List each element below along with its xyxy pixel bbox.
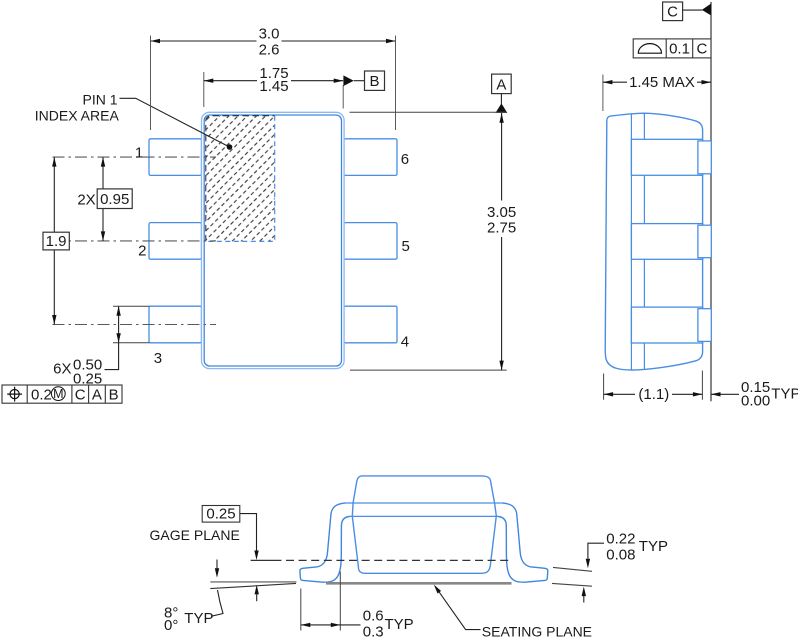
svg-text:B: B <box>369 73 379 90</box>
M circle modifier <box>51 387 65 401</box>
svg-text:0.95: 0.95 <box>100 191 129 208</box>
svg-text:0.1: 0.1 <box>669 41 690 58</box>
side lead 1 <box>631 139 702 175</box>
dimension 0.22/0.08 extension lines <box>552 567 592 586</box>
svg-text:0°: 0° <box>164 617 178 634</box>
pin 2 lead <box>149 223 202 260</box>
side body face line B <box>643 113 645 369</box>
svg-text:M: M <box>53 387 63 401</box>
dimension 3.05/2.75 extension lines <box>350 112 507 370</box>
svg-text:5: 5 <box>402 238 410 255</box>
dimension 0.6/0.3 line <box>301 624 361 626</box>
pin 3 lead <box>149 306 202 343</box>
position symbol <box>10 390 19 399</box>
pin 1 index area black dashed border <box>206 116 275 242</box>
svg-text:0.00: 0.00 <box>741 392 770 409</box>
svg-text:GAGE PLANE: GAGE PLANE <box>150 527 240 543</box>
package body inner outline <box>204 115 341 366</box>
profile of surface symbol <box>638 44 661 54</box>
datum A box <box>492 74 512 94</box>
svg-text:A: A <box>92 386 102 403</box>
dimension 0.15/0.00 TYP <box>711 393 739 395</box>
angle leader <box>211 590 223 616</box>
dimension 0.6/0.3 extension lines <box>301 572 341 631</box>
dimension 1.75/1.45 line <box>204 80 343 82</box>
svg-text:4: 4 <box>401 334 409 351</box>
side body face line A <box>630 114 632 370</box>
0.95 boxed value <box>97 189 132 209</box>
pin 1 index area blue dashed border <box>206 116 275 242</box>
svg-text:SEATING PLANE: SEATING PLANE <box>482 623 592 638</box>
svg-text:1.45: 1.45 <box>259 78 288 95</box>
svg-text:TYP: TYP <box>771 386 798 403</box>
dimension 3.05/2.75 line <box>501 113 503 370</box>
pin 6 lead <box>344 139 397 176</box>
datum C leader and triangle <box>683 9 703 11</box>
svg-text:6: 6 <box>401 151 409 168</box>
svg-text:0.25: 0.25 <box>206 506 235 523</box>
svg-text:6X: 6X <box>53 360 71 377</box>
svg-text:TYP: TYP <box>385 616 414 633</box>
dimension (1.1) extension lines <box>604 371 703 400</box>
svg-text:0.3: 0.3 <box>363 624 384 638</box>
svg-text:0.08: 0.08 <box>606 546 635 563</box>
dimension 3.0/2.6 extension lines <box>151 36 396 131</box>
svg-text:TYP: TYP <box>184 610 213 627</box>
dimension 1.9 line <box>53 157 55 324</box>
dimension 3.0/2.6 line <box>151 40 396 42</box>
side lead 2 <box>631 224 702 260</box>
dimension (1.1) line <box>604 393 703 395</box>
foot angle reference lines <box>210 581 296 583</box>
gage plane dashed line <box>251 559 282 561</box>
datum B triangle <box>343 75 353 86</box>
svg-text:3: 3 <box>154 350 162 367</box>
svg-text:A: A <box>496 76 506 93</box>
dimension 2X 0.95 line <box>102 157 104 241</box>
svg-text:2: 2 <box>138 242 146 259</box>
datum C extension line <box>710 2 712 401</box>
front body parting line lower <box>350 515 498 517</box>
svg-text:INDEX AREA: INDEX AREA <box>35 107 120 123</box>
datum B box <box>365 71 385 90</box>
centerline pin 2 <box>53 240 217 242</box>
svg-text:1.45 MAX: 1.45 MAX <box>629 74 695 91</box>
svg-text:PIN 1: PIN 1 <box>82 91 117 107</box>
svg-text:2.75: 2.75 <box>487 220 516 237</box>
svg-text:0.22: 0.22 <box>606 530 635 547</box>
dimension 1.45 MAX extension line <box>602 75 604 112</box>
svg-text:B: B <box>109 386 119 403</box>
centerline pin 3 <box>53 324 217 326</box>
seating plane leader <box>439 592 481 630</box>
left gull-wing lead <box>300 503 350 582</box>
1.9 boxed value <box>43 232 69 250</box>
profile feature control frame 0.1 C <box>633 39 711 58</box>
dimension 1.75/1.45 extension lines <box>204 72 343 109</box>
svg-text:(1.1): (1.1) <box>638 386 669 403</box>
centerline pin 1 <box>53 156 217 158</box>
pin 5 lead <box>344 223 397 260</box>
svg-text:2X: 2X <box>77 192 95 209</box>
right gull-wing lead <box>498 503 548 582</box>
side lead 3 <box>631 307 702 343</box>
pin 1 index area hatch <box>206 116 275 242</box>
side body outline <box>605 113 702 370</box>
dimension 6X 0.50/0.25 extension lines <box>113 306 150 343</box>
svg-text:C: C <box>696 41 707 58</box>
svg-text:0.6: 0.6 <box>363 608 384 625</box>
leader to index area <box>120 98 230 147</box>
svg-text:0.2: 0.2 <box>31 386 52 403</box>
svg-text:3.0: 3.0 <box>259 26 280 43</box>
0.25 leader <box>240 514 257 551</box>
svg-text:C: C <box>667 4 678 21</box>
0.25 boxed value <box>202 506 240 523</box>
seating plane line <box>326 582 512 585</box>
front body parting line upper <box>346 502 502 504</box>
dimension 6X 0.50/0.25 line and leader <box>105 306 119 369</box>
dimension 1.45 MAX line <box>603 81 711 83</box>
package body outer outline <box>202 112 345 368</box>
svg-text:C: C <box>75 386 86 403</box>
datum C box <box>663 2 683 21</box>
foot angle arrows <box>216 560 218 569</box>
svg-text:1: 1 <box>135 144 143 161</box>
datum A triangle <box>500 94 502 104</box>
pin 4 lead <box>344 306 397 343</box>
front body outline <box>352 476 496 573</box>
pin 1 lead <box>149 139 202 176</box>
feature control frame position 0.2 M C A B <box>2 385 122 403</box>
svg-text:TYP: TYP <box>639 538 668 555</box>
svg-text:2.6: 2.6 <box>259 42 280 59</box>
svg-text:1.9: 1.9 <box>46 233 67 250</box>
dimension 0.22/0.08 leader <box>588 543 604 559</box>
